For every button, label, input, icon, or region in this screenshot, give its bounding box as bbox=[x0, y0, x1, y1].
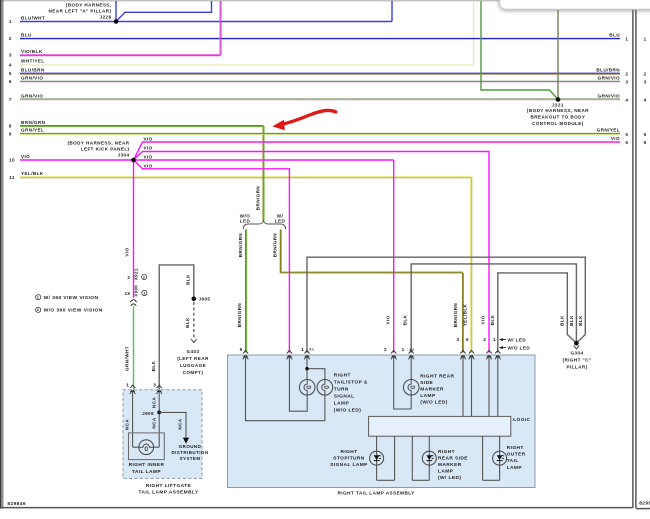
svg-text:J909: J909 bbox=[142, 411, 154, 416]
svg-text:6: 6 bbox=[625, 140, 628, 145]
svg-text:LAMP: LAMP bbox=[438, 469, 454, 475]
svg-text:GRN/VIO: GRN/VIO bbox=[21, 93, 43, 98]
svg-text:J304: J304 bbox=[118, 152, 130, 157]
svg-text:BLK: BLK bbox=[185, 317, 190, 328]
svg-text:LOGIC: LOGIC bbox=[513, 417, 530, 423]
svg-text:5: 5 bbox=[240, 347, 243, 352]
svg-text:LAMP: LAMP bbox=[420, 393, 436, 399]
svg-text:829846: 829846 bbox=[7, 501, 26, 507]
svg-text:X900: X900 bbox=[133, 285, 138, 297]
svg-text:TAIL LAMP ASSEMBLY: TAIL LAMP ASSEMBLY bbox=[139, 490, 199, 496]
svg-text:DISTRIBUTION: DISTRIBUTION bbox=[171, 450, 208, 455]
svg-text:3: 3 bbox=[625, 80, 628, 85]
svg-text:VIO: VIO bbox=[385, 315, 390, 324]
svg-text:BLU/BRN: BLU/BRN bbox=[596, 67, 620, 72]
svg-text:BLK: BLK bbox=[490, 314, 495, 325]
svg-text:8: 8 bbox=[9, 124, 12, 129]
svg-text:2: 2 bbox=[127, 275, 130, 280]
svg-text:GRN/VIO: GRN/VIO bbox=[21, 76, 43, 81]
svg-text:SIGNAL: SIGNAL bbox=[334, 394, 355, 400]
svg-text:TAIL/STOP &: TAIL/STOP & bbox=[334, 380, 368, 386]
svg-text:YEL/BLK: YEL/BLK bbox=[463, 303, 468, 326]
svg-text:VIO: VIO bbox=[124, 247, 129, 256]
svg-text:1: 1 bbox=[143, 291, 146, 295]
svg-text:VIO: VIO bbox=[144, 145, 153, 150]
svg-text:VIO: VIO bbox=[144, 155, 153, 160]
svg-text:6: 6 bbox=[644, 140, 647, 145]
svg-text:J321: J321 bbox=[552, 103, 564, 108]
svg-text:W/O: W/O bbox=[240, 213, 250, 218]
svg-text:(RIGHT "C": (RIGHT "C" bbox=[563, 358, 592, 363]
svg-text:COMPT): COMPT) bbox=[183, 370, 204, 375]
svg-text:WHT/YEL: WHT/YEL bbox=[21, 59, 45, 64]
svg-text:BREAKOUT TO BODY: BREAKOUT TO BODY bbox=[530, 115, 585, 120]
svg-text:BLU/BRN: BLU/BRN bbox=[21, 67, 45, 72]
svg-text:LED: LED bbox=[275, 219, 286, 224]
svg-text:W/O LED: W/O LED bbox=[508, 345, 531, 350]
svg-text:BRN/GRN: BRN/GRN bbox=[21, 120, 46, 125]
svg-text:(BODY HARNESS, NEAR: (BODY HARNESS, NEAR bbox=[67, 140, 129, 145]
svg-text:BLK: BLK bbox=[403, 314, 408, 325]
svg-text:6: 6 bbox=[466, 337, 469, 342]
svg-text:5: 5 bbox=[644, 132, 647, 137]
svg-text:BLK: BLK bbox=[151, 360, 156, 371]
svg-text:G304: G304 bbox=[571, 351, 584, 356]
svg-text:(BODY HARNESS, NEAR: (BODY HARNESS, NEAR bbox=[527, 108, 589, 113]
svg-text:RIGHT LIFTGATE: RIGHT LIFTGATE bbox=[146, 483, 192, 489]
svg-text:NEAR LEFT "A" PILLAR): NEAR LEFT "A" PILLAR) bbox=[49, 8, 112, 13]
svg-text:LAMP: LAMP bbox=[507, 465, 523, 471]
svg-text:5: 5 bbox=[625, 132, 628, 137]
svg-text:1: 1 bbox=[126, 383, 129, 388]
svg-text:VIO: VIO bbox=[481, 315, 486, 324]
svg-text:BLK: BLK bbox=[578, 315, 583, 326]
svg-text:4: 4 bbox=[644, 98, 647, 103]
svg-text:GRN/WHT: GRN/WHT bbox=[124, 346, 129, 371]
svg-text:OUTER: OUTER bbox=[507, 452, 526, 458]
svg-text:BLU: BLU bbox=[21, 32, 32, 37]
svg-text:MARKER: MARKER bbox=[438, 462, 462, 468]
svg-text:11: 11 bbox=[9, 175, 15, 180]
svg-text:BRN/GRN: BRN/GRN bbox=[237, 303, 242, 328]
svg-text:BLK: BLK bbox=[569, 315, 574, 326]
svg-text:SYSTEM: SYSTEM bbox=[179, 456, 200, 461]
svg-text:G403: G403 bbox=[187, 349, 200, 354]
svg-text:RIGHT TAIL LAMP ASSEMBLY: RIGHT TAIL LAMP ASSEMBLY bbox=[338, 490, 416, 495]
svg-text:SIGNAL LAMP: SIGNAL LAMP bbox=[330, 462, 368, 468]
svg-text:1: 1 bbox=[301, 347, 304, 352]
svg-text:3: 3 bbox=[9, 53, 12, 58]
svg-text:2: 2 bbox=[9, 36, 12, 41]
svg-text:9: 9 bbox=[9, 131, 12, 136]
svg-text:LAMP: LAMP bbox=[334, 401, 350, 407]
svg-text:J228: J228 bbox=[100, 14, 112, 19]
svg-text:VIO: VIO bbox=[611, 136, 620, 141]
svg-text:MARKER: MARKER bbox=[420, 387, 444, 393]
svg-text:1: 1 bbox=[493, 337, 496, 342]
svg-text:3: 3 bbox=[644, 80, 647, 85]
svg-text:GRN/VIO: GRN/VIO bbox=[598, 93, 620, 98]
svg-text:BLK: BLK bbox=[186, 274, 191, 285]
svg-text:W/ LED: W/ LED bbox=[508, 337, 527, 342]
svg-text:BLU/WHT: BLU/WHT bbox=[21, 15, 45, 20]
svg-text:X1: X1 bbox=[309, 348, 314, 352]
svg-text:19: 19 bbox=[124, 291, 130, 296]
svg-text:(W/ LED): (W/ LED) bbox=[438, 475, 461, 481]
svg-text:NCA: NCA bbox=[151, 397, 156, 408]
svg-text:3: 3 bbox=[153, 383, 156, 388]
svg-text:GRN/VIO: GRN/VIO bbox=[598, 76, 620, 81]
svg-text:2: 2 bbox=[625, 72, 628, 77]
svg-text:RIGHT INNER: RIGHT INNER bbox=[129, 462, 165, 468]
svg-text:(BODY HARNESS,: (BODY HARNESS, bbox=[66, 3, 112, 8]
svg-text:GRN/YEL: GRN/YEL bbox=[597, 128, 620, 133]
svg-text:4: 4 bbox=[625, 98, 628, 103]
svg-text:1: 1 bbox=[402, 347, 405, 352]
svg-text:NCA: NCA bbox=[177, 418, 182, 429]
svg-text:3: 3 bbox=[457, 337, 460, 342]
svg-text:VIO: VIO bbox=[144, 164, 153, 169]
svg-text:RIGHT: RIGHT bbox=[438, 449, 455, 455]
svg-text:RIGHT: RIGHT bbox=[507, 445, 524, 451]
svg-text:(W/O LED): (W/O LED) bbox=[420, 400, 448, 406]
svg-text:7: 7 bbox=[9, 97, 12, 102]
svg-text:TAIL LAMP: TAIL LAMP bbox=[132, 469, 161, 475]
svg-text:BRN/GRN: BRN/GRN bbox=[273, 233, 278, 258]
svg-text:LUGGAGE: LUGGAGE bbox=[180, 363, 206, 368]
svg-text:TURN: TURN bbox=[334, 387, 349, 393]
svg-text:1: 1 bbox=[644, 37, 647, 42]
svg-text:GROUND: GROUND bbox=[179, 444, 202, 449]
svg-text:2: 2 bbox=[384, 347, 387, 352]
svg-text:SIDE: SIDE bbox=[420, 380, 433, 386]
svg-text:2: 2 bbox=[37, 308, 40, 312]
svg-text:YEL/BLK: YEL/BLK bbox=[21, 171, 44, 176]
svg-text:RIGHT: RIGHT bbox=[334, 373, 351, 379]
svg-text:STOP/TURN: STOP/TURN bbox=[333, 455, 365, 461]
svg-text:GRN/YEL: GRN/YEL bbox=[21, 128, 44, 133]
svg-text:CONTROL MODULE): CONTROL MODULE) bbox=[532, 121, 584, 126]
svg-text:W/: W/ bbox=[277, 213, 284, 218]
svg-text:4: 4 bbox=[483, 337, 486, 342]
svg-text:NCA: NCA bbox=[151, 417, 156, 428]
svg-text:5: 5 bbox=[9, 71, 12, 76]
svg-text:1: 1 bbox=[9, 19, 12, 24]
svg-text:BRN/GRN: BRN/GRN bbox=[256, 186, 261, 211]
svg-text:VIO: VIO bbox=[21, 154, 30, 159]
svg-text:VIO: VIO bbox=[144, 137, 153, 142]
svg-text:2: 2 bbox=[143, 275, 146, 279]
svg-text:10: 10 bbox=[9, 158, 15, 163]
svg-text:RIGHT: RIGHT bbox=[340, 449, 357, 455]
svg-text:BRN/GRN: BRN/GRN bbox=[453, 303, 458, 328]
svg-text:1: 1 bbox=[37, 296, 40, 300]
svg-text:W/O 360 VIEW VISION: W/O 360 VIEW VISION bbox=[44, 308, 103, 314]
svg-text:BLU: BLU bbox=[609, 32, 620, 37]
svg-text:6: 6 bbox=[9, 79, 12, 84]
svg-text:W/ 360 VIEW VISION: W/ 360 VIEW VISION bbox=[44, 295, 99, 301]
svg-text:LEFT KICK PANEL): LEFT KICK PANEL) bbox=[81, 147, 130, 152]
svg-text:(LEFT REAR: (LEFT REAR bbox=[177, 356, 209, 361]
svg-text:VIO/BLK: VIO/BLK bbox=[21, 49, 43, 54]
svg-text:82981: 82981 bbox=[639, 500, 650, 506]
svg-text:J905: J905 bbox=[199, 297, 211, 302]
svg-text:RIGHT REAR: RIGHT REAR bbox=[420, 374, 454, 380]
svg-text:NCA: NCA bbox=[125, 419, 130, 430]
svg-text:LED: LED bbox=[240, 219, 251, 224]
svg-text:TAIL: TAIL bbox=[507, 458, 519, 464]
svg-text:BRN/GRN: BRN/GRN bbox=[238, 233, 243, 258]
svg-text:BLK: BLK bbox=[560, 315, 565, 326]
svg-text:(W/O LED): (W/O LED) bbox=[334, 408, 362, 414]
svg-text:X921: X921 bbox=[133, 268, 138, 280]
svg-text:2: 2 bbox=[644, 72, 647, 77]
svg-text:1: 1 bbox=[625, 37, 628, 42]
svg-text:PILLAR): PILLAR) bbox=[566, 365, 587, 370]
svg-text:X2: X2 bbox=[409, 348, 414, 352]
svg-text:4: 4 bbox=[9, 62, 12, 67]
svg-text:REAR SIDE: REAR SIDE bbox=[438, 456, 468, 462]
